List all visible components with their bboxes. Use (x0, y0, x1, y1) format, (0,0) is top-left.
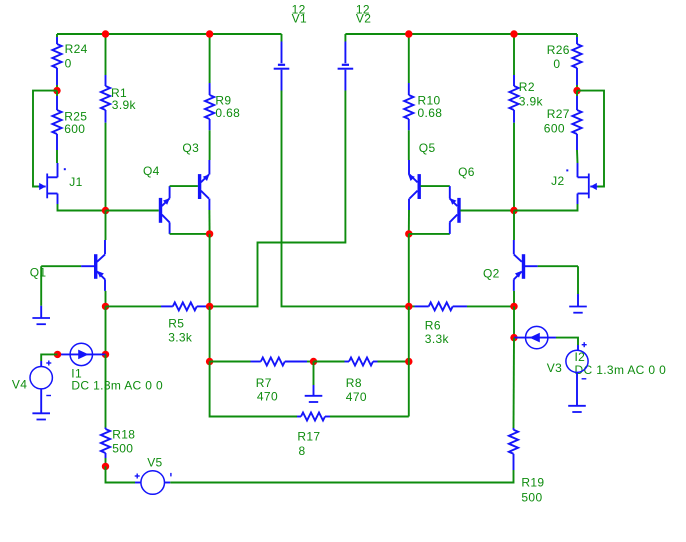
svg-text:R18: R18 (112, 428, 135, 442)
wire I2 to V3 plus (556, 338, 578, 345)
svg-text:600: 600 (544, 121, 565, 135)
svg-text:V1: V1 (292, 12, 307, 26)
wire (281, 34, 283, 42)
svg-text:3.3k: 3.3k (425, 332, 450, 346)
svg-text:DC 1.3m AC 0 0: DC 1.3m AC 0 0 (575, 363, 667, 377)
svg-text:0.68: 0.68 (215, 106, 240, 120)
svg-text:8: 8 (299, 444, 306, 458)
resistor R7 (210, 358, 314, 366)
svg-text:V4: V4 (12, 378, 27, 392)
wire Q6 base to node E (460, 210, 514, 212)
junction node C (Q3/Q4 collectors) (206, 230, 213, 237)
ground under V3 (568, 406, 586, 412)
wire top-left +12 rail (57, 33, 282, 35)
junction node O (R18/V5) (102, 463, 109, 470)
svg-text:J2: J2 (551, 174, 564, 188)
svg-text:Q4: Q4 (143, 164, 160, 178)
resistor R10 (404, 34, 413, 160)
transistor Q5 (NPN mirrored) (408, 160, 421, 210)
resistor R26 (572, 34, 581, 91)
wire J1 source to node B (58, 204, 106, 211)
svg-text:Q1: Q1 (30, 266, 47, 280)
wire node C down to R5 node (209, 234, 211, 307)
svg-text:Q5: Q5 (419, 141, 436, 155)
junction node A (R24/R25/J1-gate) (53, 87, 60, 94)
junction rail/R10 (405, 30, 412, 37)
junction rail/R9 (206, 30, 213, 37)
junction node J (R6 right / Q2 lower) (510, 303, 517, 310)
JFET J2 (mirrored) (578, 163, 598, 204)
transistor Q2 (PNP mirrored) (514, 211, 578, 307)
resistor R8 (314, 358, 409, 366)
svg-text:V5: V5 (147, 456, 162, 470)
wire J1 gate feedback loop (33, 91, 57, 187)
wire Q4 emitter to Q3 base (170, 185, 198, 187)
wire node J down to I2 node (513, 306, 515, 337)
resistor R17 (297, 413, 409, 421)
junction node K (R7 left) (206, 358, 213, 365)
junction node N (I1 out) (102, 351, 109, 358)
svg-text:DC 1.3m AC 0 0: DC 1.3m AC 0 0 (71, 379, 163, 393)
svg-text:V3: V3 (547, 361, 562, 375)
wire Q5 collector to node D (408, 210, 410, 234)
resistor R1 (101, 34, 110, 211)
wire Q6 collector to node D (409, 233, 450, 235)
wire I1 to V4 plus (41, 354, 57, 361)
junction node E (J2 source / R2 / Q6 base / Q2 upper) (510, 207, 517, 214)
svg-text:R7: R7 (256, 376, 272, 390)
transistor Q6 (NPN mirrored) (450, 186, 461, 234)
junction node I (R6 left) (405, 303, 412, 310)
junction node D (Q5/Q6 collectors) (405, 230, 412, 237)
wire node M down to R17 right (408, 362, 410, 417)
junction node G (Q1 emitter / R5 / I1) (102, 303, 109, 310)
svg-text:3.9k: 3.9k (112, 98, 137, 112)
wire node I to node M (408, 306, 410, 361)
voltage source V5 (135, 471, 171, 495)
svg-text:R6: R6 (425, 318, 441, 332)
svg-text:600: 600 (64, 122, 85, 136)
junction node B (J1 source / R1 / Q4 base / Q1 collector) (102, 207, 109, 214)
wire node D down to R6 node (408, 234, 410, 307)
wire Q1 base to ground (40, 266, 42, 306)
ground under Q2 base (569, 294, 587, 313)
current source I2 (514, 326, 556, 348)
ground mid (305, 385, 323, 402)
svg-text:0: 0 (553, 57, 560, 71)
J2 pin marker (566, 169, 568, 171)
resistor R24 (52, 34, 61, 91)
transistor Q4 (NPN) (159, 186, 170, 234)
svg-text:R17: R17 (297, 429, 320, 443)
svg-text:3.9k: 3.9k (519, 94, 544, 108)
svg-text:Q2: Q2 (483, 266, 500, 280)
svg-text:V2: V2 (356, 12, 371, 26)
wire node O to V5 plus (106, 466, 136, 482)
resistor R19 (509, 338, 518, 470)
svg-text:R27: R27 (547, 107, 570, 121)
resistor R18 (101, 354, 110, 466)
wire V1 minus to node R6-left (cross wire) (282, 91, 409, 307)
J1 pin marker (64, 168, 66, 170)
svg-text:J1: J1 (69, 175, 82, 189)
junction node H (R5/cross/column) (206, 303, 213, 310)
voltage source V4 (30, 361, 52, 414)
junction I1 minus node (54, 351, 61, 358)
svg-text:500: 500 (521, 491, 542, 505)
junction rail/R2 (510, 30, 517, 37)
voltage source V3 (566, 342, 588, 406)
wire Q4 collector to node C (170, 233, 210, 235)
wire node B to Q4 base (106, 210, 159, 212)
svg-text:0: 0 (65, 56, 72, 70)
junction node M (R8 right) (405, 358, 412, 365)
resistor R27 (572, 91, 581, 163)
svg-text:Q3: Q3 (182, 141, 199, 155)
junction node F (R26/R27/J2-gate) (573, 87, 580, 94)
wire V5 minus to R19 bottom (170, 470, 513, 483)
wire node H down (209, 306, 211, 361)
wire J2 gate feedback loop (577, 91, 604, 187)
resistor R5 (106, 302, 210, 310)
resistor R6 (409, 302, 514, 310)
wire V2 minus to node R5-right (cross wire) (210, 91, 346, 307)
wire J2 source to node E (514, 204, 578, 211)
ground under V4 (32, 413, 50, 419)
svg-text:R5: R5 (168, 316, 184, 330)
wire node L to ground (313, 362, 315, 386)
junction node L (R7/R8/ground) (310, 358, 317, 365)
svg-text:470: 470 (346, 390, 367, 404)
svg-text:Q6: Q6 (458, 165, 475, 179)
wire (344, 34, 346, 42)
battery V2 (338, 34, 354, 91)
junction node P (I2 out) (510, 334, 517, 341)
wire Q3 collector to node C (208, 210, 210, 234)
wire Q2 base to ground (577, 266, 579, 294)
wire top-right +12 rail (345, 33, 577, 35)
svg-text:R2: R2 (519, 80, 535, 94)
battery V1 (274, 34, 290, 91)
wire node K down to R17 left (210, 362, 297, 417)
ground under Q1 base (32, 306, 50, 324)
resistor R25 (52, 91, 61, 163)
svg-text:R19: R19 (521, 476, 544, 490)
wire node G down to I1 (105, 306, 107, 354)
resistor R2 (509, 34, 518, 211)
svg-text:R26: R26 (547, 43, 570, 57)
svg-text:500: 500 (112, 442, 133, 456)
junction rail/R1 (102, 30, 109, 37)
wire Q5 base to Q6 emitter (421, 185, 450, 187)
svg-text:470: 470 (257, 389, 278, 403)
current source I1 (58, 343, 106, 365)
svg-text:0.68: 0.68 (418, 106, 443, 120)
transistor Q1 (PNP) (41, 211, 105, 307)
svg-text:R24: R24 (65, 42, 88, 56)
svg-text:3.3k: 3.3k (168, 330, 193, 344)
JFET J1 (39, 163, 58, 204)
svg-text:R8: R8 (346, 376, 362, 390)
resistor R9 (205, 34, 214, 160)
transistor Q3 (NPN) (198, 160, 210, 210)
